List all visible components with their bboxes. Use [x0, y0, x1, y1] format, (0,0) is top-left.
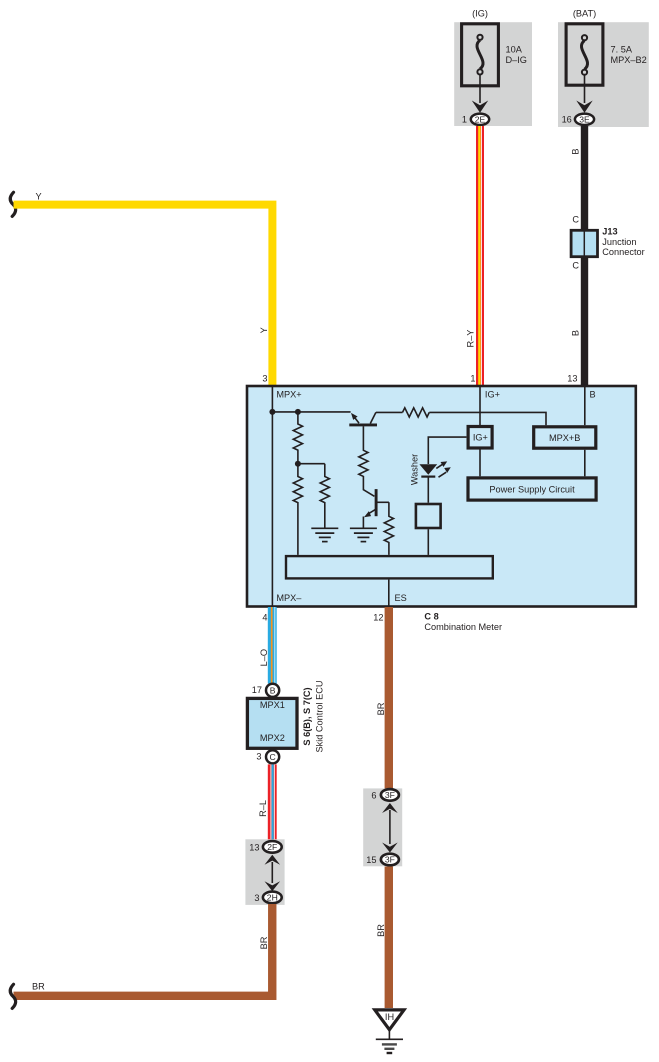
- svg-text:Washer: Washer: [410, 454, 420, 485]
- svg-text:Combination Meter: Combination Meter: [424, 622, 502, 632]
- wire junction to resistor R3: [298, 463, 325, 465]
- svg-text:MPX–: MPX–: [276, 593, 302, 603]
- transistor Q1 emitter lead: [355, 418, 359, 423]
- LED cathode bar: [421, 476, 435, 478]
- svg-text:7. 5A: 7. 5A: [611, 44, 633, 54]
- svg-text:1: 1: [462, 115, 467, 125]
- wire R-Y from 2E to combination meter pin 1: [479, 126, 481, 386]
- wire Y continuation squiggle (top left): [10, 192, 15, 216]
- MPX bus driver box: [286, 556, 493, 578]
- svg-text:B: B: [571, 330, 581, 336]
- junction arrow up: [265, 855, 281, 865]
- resistor R3 (vertical, to ground): [320, 464, 329, 528]
- svg-text:C: C: [572, 214, 579, 224]
- transistor Q1 collector lead: [370, 412, 376, 423]
- svg-text:IH: IH: [385, 1012, 394, 1022]
- wire Q2 emitter to ground: [362, 517, 364, 528]
- connector circle C pin 3: [266, 750, 279, 763]
- junction dot on MPX line: [269, 409, 275, 415]
- fuse block F1 (IG) 10A D-IG: [454, 9, 532, 126]
- connector block 3F/3F: [363, 788, 402, 866]
- wire Q1 collector to horizontal resistor: [376, 411, 403, 413]
- wire MPX+B box to power supply circuit: [584, 450, 586, 477]
- transistor Q1 (PNP) emitter arrowhead: [351, 413, 358, 420]
- svg-text:L–O: L–O: [259, 649, 269, 666]
- svg-text:BR: BR: [259, 936, 269, 949]
- wire B pin to MPX+B box: [584, 386, 586, 425]
- svg-text:13: 13: [567, 373, 577, 383]
- junction arrow line: [271, 862, 273, 883]
- wire LED cathode to lamp driver box: [427, 477, 429, 503]
- wire B from 3E to J13: [581, 126, 588, 386]
- IG+ box: [468, 427, 492, 449]
- wire L-O from meter pin 4 to skid control ECU pin 17: [272, 607, 275, 684]
- LED light arrow 2: [439, 472, 447, 477]
- connector circle B pin 17: [266, 684, 279, 697]
- svg-text:S 6(B), S 7(C): S 6(B), S 7(C): [302, 687, 312, 745]
- internal rail from MPX+ line to transistor emitter: [272, 411, 350, 413]
- resistor R1 (vertical): [293, 412, 302, 464]
- connector 2H pin 3: [263, 892, 282, 904]
- connector 3E pin 16: [562, 114, 595, 125]
- svg-text:(IG): (IG): [472, 9, 488, 19]
- svg-text:12: 12: [373, 613, 383, 623]
- internal wire MPX+ to MPX- vertical: [271, 386, 273, 607]
- svg-text:C: C: [572, 260, 579, 270]
- svg-text:17: 17: [252, 685, 262, 695]
- svg-text:MPX–B2: MPX–B2: [611, 55, 647, 65]
- resistor R2 (vertical, to bus): [293, 464, 302, 555]
- svg-text:MPX2: MPX2: [260, 733, 285, 743]
- wire R-L from ECU pin 3 to connector 2F: [271, 764, 274, 840]
- wire LED anode to IG+ box: [428, 437, 466, 464]
- svg-text:3F: 3F: [385, 790, 395, 800]
- svg-text:C 8: C 8: [424, 611, 438, 621]
- connector block 2F/2H: [245, 839, 284, 905]
- power supply circuit box: [468, 478, 596, 500]
- ground point IH: [375, 1010, 404, 1053]
- wire BR from 3F to ground IH: [385, 867, 393, 1009]
- wire resistor to MPX+B: [429, 412, 546, 425]
- skid control ECU box S6(B) S7(C): [247, 698, 297, 748]
- junction connector J13: [571, 226, 645, 257]
- LED light arrow 1: [436, 464, 442, 468]
- svg-text:BR: BR: [32, 982, 45, 992]
- LED washer indicator (diode): [419, 464, 437, 475]
- svg-text:Junction: Junction: [602, 237, 636, 247]
- wire driver box to bus: [427, 529, 429, 555]
- connector 2F pin 13: [263, 841, 282, 853]
- svg-text:J13: J13: [602, 226, 617, 236]
- svg-text:1: 1: [470, 373, 475, 383]
- wire Y to combination meter pin 3: [14, 205, 273, 386]
- junction arrow down: [265, 881, 281, 891]
- svg-text:ES: ES: [395, 593, 407, 603]
- svg-text:3: 3: [254, 893, 259, 903]
- resistor R4 (horizontal): [403, 408, 430, 417]
- svg-text:Y: Y: [36, 192, 42, 202]
- ground G2: [350, 528, 377, 541]
- svg-text:(BAT): (BAT): [573, 9, 596, 19]
- fuse block F2 (BAT) 7.5A MPX-B2: [558, 9, 649, 127]
- svg-text:B: B: [571, 148, 581, 154]
- svg-text:2H: 2H: [267, 893, 278, 903]
- svg-text:MPX+B: MPX+B: [549, 433, 580, 443]
- junction arrow line: [389, 810, 391, 844]
- svg-text:D–IG: D–IG: [506, 55, 527, 65]
- transistor Q2 (NPN) base bar: [375, 489, 378, 516]
- wire IG+ box to power supply circuit: [479, 449, 481, 476]
- connector 3F pin 15: [381, 854, 399, 866]
- svg-text:BR: BR: [376, 702, 386, 715]
- transistor Q2 emitter arrowhead: [364, 511, 371, 517]
- svg-text:16: 16: [562, 115, 572, 125]
- svg-text:B: B: [270, 685, 276, 695]
- connector 3F pin 6: [381, 789, 399, 801]
- junction arrow down: [382, 843, 398, 853]
- svg-text:IG+: IG+: [473, 433, 488, 443]
- junction dot below R1: [295, 461, 301, 467]
- wire BR continuation squiggle (bottom left): [10, 984, 15, 1008]
- svg-text:3F: 3F: [385, 855, 395, 865]
- wire BR from 2H to left continuation: [14, 904, 273, 996]
- svg-text:Power Supply Circuit: Power Supply Circuit: [489, 485, 575, 495]
- transistor Q2 collector lead: [378, 501, 389, 503]
- transistor Q2 emitter lead: [368, 509, 377, 514]
- svg-text:3: 3: [256, 751, 261, 761]
- svg-text:6: 6: [371, 790, 376, 800]
- wire IG+ pin to IG+ box: [479, 386, 481, 425]
- svg-text:Skid Control ECU: Skid Control ECU: [315, 681, 325, 753]
- lamp driver box (square): [416, 504, 441, 528]
- resistor R6 (vertical, Q2 collector to bus): [384, 502, 393, 555]
- ground G1: [311, 528, 338, 541]
- svg-text:Y: Y: [259, 327, 269, 333]
- svg-text:2F: 2F: [267, 842, 277, 852]
- junction arrow up: [382, 803, 398, 813]
- svg-text:BR: BR: [376, 924, 386, 937]
- MPX+B box: [534, 427, 596, 448]
- junction dot at resistor R1 top: [295, 409, 301, 415]
- svg-text:R–L: R–L: [258, 800, 268, 817]
- svg-text:MPX+: MPX+: [276, 390, 301, 400]
- connector 2E pin 1: [462, 114, 489, 125]
- svg-text:4: 4: [262, 613, 267, 623]
- svg-text:Connector: Connector: [602, 247, 644, 257]
- wire BR from meter pin 12 to connector 3F: [385, 607, 393, 789]
- svg-text:MPX1: MPX1: [260, 700, 285, 710]
- svg-text:C: C: [269, 752, 275, 762]
- svg-text:B: B: [590, 390, 596, 400]
- svg-text:3E: 3E: [579, 114, 590, 124]
- svg-text:15: 15: [366, 855, 376, 865]
- svg-text:13: 13: [249, 842, 259, 852]
- transistor Q1 base bar: [349, 423, 377, 426]
- svg-text:10A: 10A: [506, 44, 523, 54]
- transistor Q1 base lead + resistor R5 (vertical): [359, 426, 375, 496]
- svg-text:R–Y: R–Y: [466, 330, 476, 348]
- combination meter C8 box: [247, 386, 636, 607]
- svg-text:IG+: IG+: [485, 390, 500, 400]
- wire ES from bus to pin 12: [388, 580, 390, 607]
- svg-text:2E: 2E: [475, 114, 486, 124]
- svg-text:3: 3: [262, 373, 267, 383]
